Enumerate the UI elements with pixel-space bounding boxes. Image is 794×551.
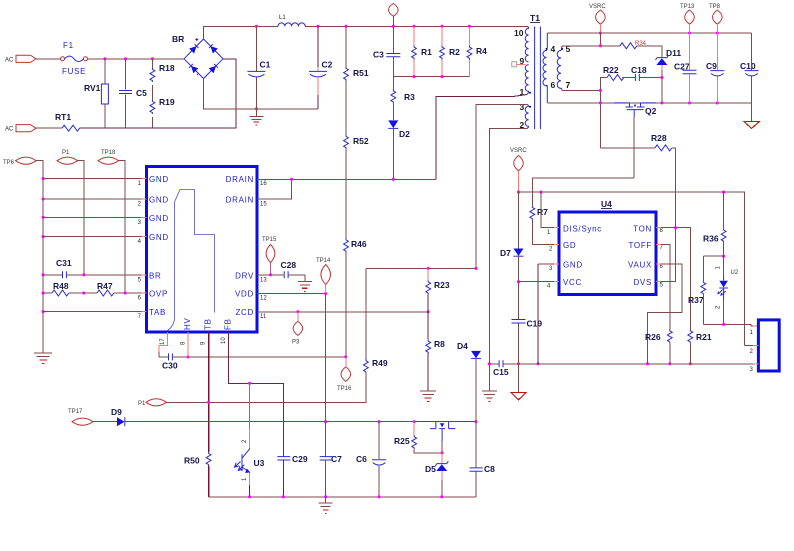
capacitor C1 — [247, 26, 270, 109]
resistor R46 — [344, 239, 367, 357]
resistor R21 — [688, 329, 712, 363]
left gnd bus — [36, 161, 43, 353]
primary winding pins 10-9-1 — [525, 26, 528, 94]
resistor R18 — [150, 59, 175, 100]
wire fuse to bridge — [88, 58, 185, 60]
resistor R22 / capacitor C18 snubber — [600, 65, 663, 90]
capacitor C10 — [740, 33, 759, 103]
junction R46/TP16/HV node — [344, 355, 347, 358]
svg-text:16: 16 — [260, 181, 267, 187]
resistor R50 — [184, 452, 211, 497]
TB pin9 dark line down to R50 — [208, 332, 210, 452]
wire bridge plus up to top rail — [204, 26, 279, 39]
svg-text:P1: P1 — [62, 150, 70, 156]
capacitor C8 — [470, 422, 496, 497]
mosfet Q2 — [614, 103, 657, 178]
resistor R8 — [426, 312, 445, 391]
svg-text:TP8: TP8 — [709, 4, 721, 10]
svg-text:R47: R47 — [97, 281, 113, 291]
capacitor C15 — [488, 360, 756, 377]
test point TP16 — [337, 357, 352, 392]
junction dots on AC top wire — [103, 57, 106, 60]
svg-text:HV: HV — [183, 317, 192, 330]
wire TOFF pin7 to R26 — [656, 245, 670, 330]
wire GND pin1 — [43, 178, 146, 180]
wire bridge minus to dc return rail — [204, 79, 319, 109]
transformer T1 — [512, 13, 571, 130]
ground right of C28 — [298, 281, 312, 291]
resistor R51 — [344, 26, 369, 81]
connector pin3 stub — [690, 363, 753, 365]
wire GND pin3 — [43, 216, 146, 218]
resistor R48 / OVP pin wire — [43, 281, 97, 296]
test point TP17 — [68, 409, 117, 425]
svg-text:9: 9 — [520, 56, 525, 66]
wire VAUX pin6 to ground rail — [648, 264, 683, 364]
svg-text:R2: R2 — [449, 47, 460, 57]
svg-text:DVS: DVS — [633, 278, 652, 287]
svg-text:GND: GND — [149, 233, 169, 242]
capacitor C9 — [706, 33, 724, 103]
svg-text:C6: C6 — [356, 454, 367, 464]
capacitor C31 / BR pin wire — [43, 258, 146, 278]
svg-text:C7: C7 — [331, 454, 342, 464]
resistor R28 — [651, 133, 676, 282]
svg-text:TP16: TP16 — [337, 386, 352, 392]
svg-text:GND: GND — [149, 214, 169, 223]
svg-text:3: 3 — [520, 102, 525, 112]
wire DIS/Sync pin1 — [541, 192, 559, 228]
svg-text:GD: GD — [563, 241, 576, 250]
test point TP13 — [680, 4, 695, 33]
capacitor C27 — [674, 33, 697, 103]
C15 rail — [489, 363, 499, 365]
resistor R19 — [150, 97, 175, 128]
test point P1 (bottom) — [138, 399, 166, 407]
svg-text:10: 10 — [514, 28, 524, 38]
svg-text:VSRC: VSRC — [589, 4, 606, 10]
wire VCC pin4 — [519, 281, 560, 283]
opto LED U2 — [716, 256, 739, 324]
VDD chain down to C7 — [325, 294, 327, 422]
capacitor C5 — [119, 59, 147, 128]
bottom ground rail — [209, 496, 476, 498]
capacitor C3 — [373, 26, 400, 76]
op-amp U1 body — [138, 167, 268, 346]
wire RT1 to bridge right leg — [80, 59, 236, 128]
svg-text:C2: C2 — [322, 60, 333, 70]
capacitor C2 — [309, 26, 333, 109]
svg-text:TP15: TP15 — [262, 237, 277, 243]
ground below rail — [319, 497, 333, 514]
R37 / U2 top node — [703, 255, 723, 257]
svg-text:D11: D11 — [666, 48, 681, 58]
svg-text:TON: TON — [633, 225, 652, 234]
inductor L1 — [278, 15, 305, 26]
svg-text:AC: AC — [5, 127, 14, 133]
svg-text:13: 13 — [260, 277, 267, 283]
U1 pin lead stubs — [142, 179, 263, 338]
svg-text:R49: R49 — [372, 358, 388, 368]
svg-text:TP18: TP18 — [101, 150, 116, 156]
svg-text:C1: C1 — [260, 60, 271, 70]
U4 pin lead stubs — [554, 228, 661, 282]
secondary winding B pins 5-7 — [557, 49, 562, 89]
wire return rail to R28 — [600, 147, 655, 149]
svg-text:C18: C18 — [631, 65, 647, 75]
test point VSRC (lower) — [510, 148, 527, 192]
HV pin8 stub — [187, 332, 189, 357]
svg-text:R37: R37 — [688, 295, 704, 305]
resistor R2 — [440, 26, 461, 76]
wire Q2 gate to R7 — [532, 178, 634, 206]
resistor R52 — [344, 81, 369, 239]
svg-text:U3: U3 — [254, 458, 265, 468]
wire T1 pin7 — [561, 89, 563, 91]
svg-text:R8: R8 — [434, 339, 445, 349]
test point TP8 — [709, 4, 722, 33]
svg-text:R1: R1 — [421, 47, 432, 57]
svg-text:C3: C3 — [373, 50, 384, 60]
svg-text:P3: P3 — [292, 340, 300, 346]
varistor RV1 — [84, 59, 108, 128]
secondary return rail — [547, 102, 751, 104]
core — [535, 27, 541, 130]
svg-text:D9: D9 — [111, 407, 122, 417]
ground (open triangle) below C19 node — [511, 364, 526, 400]
vsrc top rail — [600, 32, 751, 34]
svg-text:4: 4 — [551, 44, 556, 54]
ground below C1 — [249, 109, 263, 125]
svg-text:T1: T1 — [530, 13, 540, 23]
svg-text:U2: U2 — [731, 270, 739, 276]
ground below R8 — [420, 391, 436, 402]
resistor R47 — [82, 281, 146, 296]
diode D7 — [500, 192, 524, 282]
resistor R26 — [645, 329, 672, 363]
diode D4 — [457, 341, 481, 422]
bias winding pins 3-2 — [525, 105, 528, 129]
svg-text:F1: F1 — [63, 41, 74, 50]
svg-text:17: 17 — [160, 338, 166, 345]
resistor R34 — [620, 41, 662, 57]
svg-text:BR: BR — [172, 34, 184, 44]
svg-text:AC: AC — [5, 58, 14, 64]
test point TP15 — [262, 237, 277, 275]
test point P1 (top) — [57, 150, 84, 275]
ground (open triangle) right — [744, 103, 759, 128]
svg-text:D7: D7 — [500, 248, 511, 258]
svg-text:TP17: TP17 — [68, 409, 83, 415]
test point TP18 — [98, 150, 125, 293]
phase dots — [546, 48, 548, 50]
svg-text:R19: R19 — [159, 97, 175, 107]
svg-text:DRV: DRV — [235, 271, 254, 280]
svg-text:C31: C31 — [56, 258, 72, 268]
bridge rectifier BR — [172, 34, 223, 79]
zener diode D11 — [656, 48, 682, 103]
FB pin10 route — [228, 332, 283, 456]
svg-text:DRAIN: DRAIN — [226, 196, 254, 205]
svg-text:R26: R26 — [645, 332, 661, 342]
svg-text:TP6: TP6 — [3, 160, 15, 166]
svg-text:P1: P1 — [138, 401, 146, 407]
resistor R37 — [688, 256, 706, 324]
mosfet Q3 (aux) — [430, 422, 456, 455]
svg-text:R46: R46 — [351, 239, 367, 249]
svg-text:R25: R25 — [394, 436, 410, 446]
test point P3 — [292, 312, 303, 346]
resistor R23 — [426, 268, 450, 311]
port AC (line) — [5, 55, 36, 63]
zener diode D5 — [425, 453, 448, 497]
wire T1 pin2 down — [489, 128, 527, 363]
VDD wire pin12 — [257, 293, 326, 295]
svg-text:OVP: OVP — [149, 290, 168, 299]
svg-text:R4: R4 — [476, 46, 487, 56]
svg-text:C5: C5 — [136, 88, 147, 98]
resistor R36 — [703, 192, 726, 258]
svg-text:6: 6 — [551, 80, 556, 90]
resistor R1 — [412, 26, 433, 76]
connector pin2 stub — [745, 344, 753, 346]
wire clamp bottom node — [393, 76, 469, 78]
svg-text:Q2: Q2 — [645, 106, 657, 116]
svg-text:R21: R21 — [696, 332, 712, 342]
capacitor C6 — [356, 422, 386, 497]
resistor R3 — [391, 77, 415, 104]
svg-text:VCC: VCC — [563, 278, 582, 287]
svg-text:11: 11 — [260, 314, 267, 320]
vdd bottom wire — [125, 421, 415, 423]
wire GND pin4 — [43, 236, 146, 238]
svg-text:C28: C28 — [281, 260, 297, 270]
port AC (neutral) — [5, 125, 36, 133]
svg-text:L1: L1 — [279, 15, 286, 21]
svg-text:GND: GND — [149, 175, 169, 184]
svg-text:C19: C19 — [527, 319, 543, 329]
capacitor C19 — [512, 280, 543, 364]
svg-text:R36: R36 — [703, 234, 719, 244]
svg-text:RT1: RT1 — [55, 112, 71, 122]
svg-text:TB: TB — [204, 318, 213, 330]
resistor R25 — [394, 422, 442, 453]
op-amp U4 body — [547, 199, 664, 295]
wire GND pin2 — [43, 198, 146, 200]
svg-text:TOFF: TOFF — [628, 241, 652, 250]
wire AC1 to fuse — [36, 58, 61, 60]
svg-text:VDD: VDD — [235, 290, 254, 299]
resistor R49 — [166, 268, 387, 402]
svg-text:15: 15 — [260, 202, 267, 208]
svg-text:R48: R48 — [53, 281, 69, 291]
svg-text:C8: C8 — [484, 464, 495, 474]
R37/U2 bottom node to connector pin1 — [703, 324, 753, 326]
svg-text:R52: R52 — [353, 136, 369, 146]
svg-text:C9: C9 — [706, 61, 717, 71]
svg-text:R7: R7 — [537, 207, 548, 217]
test point (top, unlabeled) — [389, 4, 399, 27]
wire T1 pin3 down — [476, 105, 528, 269]
svg-text:C10: C10 — [740, 61, 756, 71]
svg-text:U4: U4 — [601, 199, 612, 209]
svg-text:TP14: TP14 — [316, 258, 331, 264]
vsrc distribution wire — [519, 192, 745, 345]
DRV wire / capacitor C28 — [257, 260, 305, 281]
wire R23 top node — [366, 267, 476, 269]
diode D9 — [111, 407, 125, 426]
svg-text:TAB: TAB — [149, 308, 166, 317]
svg-text:R3: R3 — [404, 92, 415, 102]
svg-text:D5: D5 — [425, 464, 436, 474]
ground at bus bottom — [34, 353, 52, 364]
svg-text:12: 12 — [260, 296, 267, 302]
svg-text:R23: R23 — [434, 280, 450, 290]
pin 9 no-connect stub — [517, 63, 525, 65]
svg-text:R18: R18 — [159, 63, 175, 73]
wire T1 pin6 to secondary return — [546, 86, 548, 103]
svg-text:VSRC: VSRC — [510, 148, 527, 154]
svg-text:C15: C15 — [493, 367, 509, 377]
svg-text:TP13: TP13 — [680, 4, 695, 10]
resistor R7 — [530, 206, 559, 245]
ground below pin2 chain — [482, 364, 497, 402]
test point VSRC (top) — [589, 4, 606, 33]
ZCD wire pin11 — [257, 311, 428, 313]
svg-text:10: 10 — [221, 337, 227, 344]
svg-text:D2: D2 — [399, 129, 410, 139]
svg-text:C29: C29 — [292, 454, 308, 464]
optocoupler transistor U3 — [235, 383, 265, 497]
resistor R4 — [467, 26, 487, 76]
svg-text:R51: R51 — [353, 68, 369, 78]
wire T1 pin1 to drain node — [436, 95, 527, 180]
svg-text:FB: FB — [224, 318, 233, 330]
secondary winding A pins 4-6 — [543, 49, 547, 86]
svg-text:R22: R22 — [603, 65, 619, 75]
wire winding 4-5 parallel tie — [599, 33, 601, 46]
svg-text:GND: GND — [563, 260, 583, 269]
wire TON pin8 — [656, 228, 690, 330]
svg-text:FUSE: FUSE — [62, 67, 86, 76]
svg-text:DIS/Sync: DIS/Sync — [563, 225, 602, 234]
capacitor C7 — [320, 422, 342, 497]
wire TAB pin7 — [43, 311, 146, 313]
fuse F1 — [61, 41, 88, 76]
svg-text:DRAIN: DRAIN — [226, 175, 254, 184]
wire T1 pin4 to vsrc rail — [546, 33, 548, 49]
test point TP14 — [316, 258, 331, 294]
connector J1 — [750, 320, 780, 373]
wire GND pin3 — [538, 263, 559, 265]
capacitor C29 — [277, 454, 308, 497]
top rail after L1 — [305, 25, 527, 27]
svg-text:R50: R50 — [184, 456, 200, 466]
svg-text:BR: BR — [149, 271, 162, 280]
thermistor RT1 — [36, 112, 80, 131]
wire pin7 node down to return rail — [599, 90, 601, 147]
diode D2 — [388, 103, 410, 179]
svg-text:7: 7 — [566, 80, 571, 90]
svg-text:C30: C30 — [162, 361, 178, 371]
svg-text:ZCD: ZCD — [235, 308, 254, 317]
test point TP6 — [3, 157, 36, 166]
svg-text:GND: GND — [149, 196, 169, 205]
drain net wires — [257, 178, 436, 180]
wire T1 pin5 to R34 — [561, 46, 563, 49]
svg-text:RV1: RV1 — [84, 83, 101, 93]
svg-text:D4: D4 — [457, 341, 468, 351]
svg-text:VAUX: VAUX — [628, 260, 652, 269]
pin17 stub and capacitor C30 — [159, 332, 346, 371]
svg-text:R28: R28 — [651, 133, 667, 143]
